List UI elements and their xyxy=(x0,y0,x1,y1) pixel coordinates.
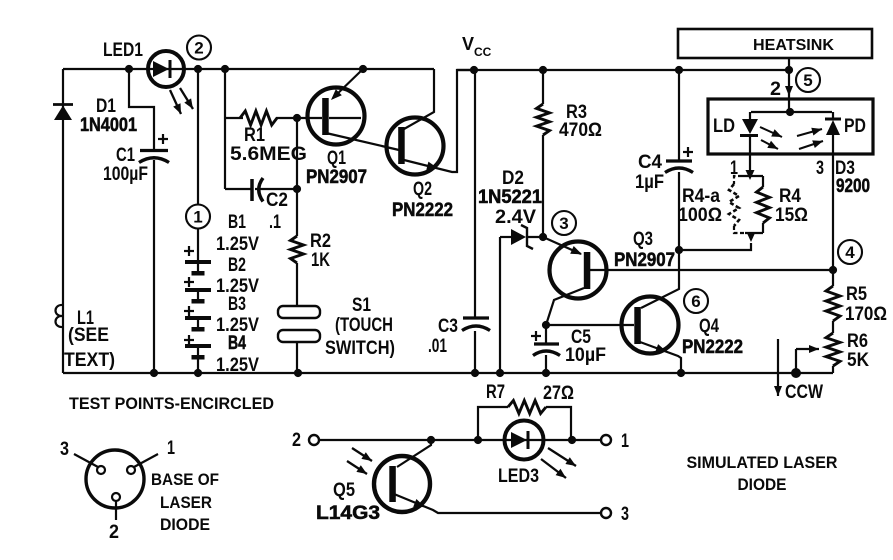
svg-text:1: 1 xyxy=(167,438,175,459)
svg-text:TEST POINTS-ENCIRCLED: TEST POINTS-ENCIRCLED xyxy=(69,394,274,413)
svg-text:SIMULATED LASER: SIMULATED LASER xyxy=(687,453,838,472)
svg-text:(SEE: (SEE xyxy=(68,325,109,346)
svg-text:170Ω: 170Ω xyxy=(845,304,887,325)
svg-text:10µF: 10µF xyxy=(565,345,606,366)
svg-text:Q5: Q5 xyxy=(333,480,355,501)
svg-text:3: 3 xyxy=(60,439,69,460)
svg-text:PN2907: PN2907 xyxy=(306,167,367,188)
svg-text:Q3: Q3 xyxy=(633,229,653,250)
svg-text:D2: D2 xyxy=(502,168,524,189)
svg-text:B3: B3 xyxy=(228,294,246,315)
svg-text:5K: 5K xyxy=(847,350,869,371)
svg-text:1: 1 xyxy=(193,208,202,227)
svg-text:C1: C1 xyxy=(116,145,135,166)
svg-text:PD: PD xyxy=(844,116,866,137)
svg-text:R4-a: R4-a xyxy=(682,186,720,207)
svg-text:B4: B4 xyxy=(228,333,246,354)
svg-text:1.25V: 1.25V xyxy=(216,355,259,376)
svg-text:SWITCH): SWITCH) xyxy=(325,338,395,359)
svg-text:1.25V: 1.25V xyxy=(216,234,259,255)
svg-text:TEXT): TEXT) xyxy=(64,350,115,371)
svg-text:100Ω: 100Ω xyxy=(678,205,722,226)
svg-text:PN2907: PN2907 xyxy=(614,250,675,271)
svg-text:4: 4 xyxy=(845,243,855,262)
svg-text:R2: R2 xyxy=(310,231,331,252)
svg-text:R1: R1 xyxy=(244,125,265,146)
svg-text:PN2222: PN2222 xyxy=(682,337,743,358)
svg-text:.01: .01 xyxy=(428,336,447,357)
svg-text:1N5221: 1N5221 xyxy=(478,187,542,208)
svg-text:.1: .1 xyxy=(269,212,281,233)
svg-text:2: 2 xyxy=(109,522,119,543)
svg-text:DIODE: DIODE xyxy=(160,515,210,534)
svg-text:C2: C2 xyxy=(266,190,288,211)
svg-text:LASER: LASER xyxy=(160,493,212,512)
svg-text:R5: R5 xyxy=(846,284,867,305)
svg-text:B2: B2 xyxy=(228,255,246,276)
svg-text:BASE OF: BASE OF xyxy=(151,470,219,489)
svg-text:C4: C4 xyxy=(638,152,662,173)
svg-text:R6: R6 xyxy=(847,331,868,352)
svg-text:HEATSINK: HEATSINK xyxy=(753,37,834,54)
svg-text:PN2222: PN2222 xyxy=(392,200,453,221)
svg-text:S1: S1 xyxy=(352,295,371,316)
svg-text:1µF: 1µF xyxy=(635,172,664,193)
svg-text:CCW: CCW xyxy=(785,382,823,403)
svg-text:6: 6 xyxy=(691,292,700,311)
svg-text:C3: C3 xyxy=(438,316,458,337)
svg-text:B1: B1 xyxy=(228,212,246,233)
svg-text:Q4: Q4 xyxy=(699,316,719,337)
svg-text:5: 5 xyxy=(803,71,812,90)
svg-text:1K: 1K xyxy=(311,250,330,271)
svg-text:(TOUCH: (TOUCH xyxy=(335,315,393,336)
svg-text:D1: D1 xyxy=(96,96,116,117)
svg-text:DIODE: DIODE xyxy=(738,475,787,494)
svg-text:L14G3: L14G3 xyxy=(316,503,380,524)
svg-text:LED1: LED1 xyxy=(103,40,143,61)
svg-text:27Ω: 27Ω xyxy=(543,383,574,404)
svg-text:100µF: 100µF xyxy=(103,164,148,185)
svg-text:5.6MEG: 5.6MEG xyxy=(230,144,307,165)
svg-text:2.4V: 2.4V xyxy=(495,207,536,228)
svg-text:15Ω: 15Ω xyxy=(775,205,808,226)
svg-text:9200: 9200 xyxy=(836,176,870,197)
svg-text:2: 2 xyxy=(194,39,203,58)
svg-text:2: 2 xyxy=(770,79,781,100)
svg-text:470Ω: 470Ω xyxy=(559,120,602,141)
svg-text:3: 3 xyxy=(816,158,824,179)
svg-text:3: 3 xyxy=(621,504,629,525)
svg-text:LED3: LED3 xyxy=(498,466,539,487)
svg-text:R4: R4 xyxy=(779,186,801,207)
svg-text:3: 3 xyxy=(559,214,568,233)
svg-text:1: 1 xyxy=(730,158,738,179)
svg-text:R7: R7 xyxy=(486,382,505,403)
svg-text:1: 1 xyxy=(621,431,629,452)
svg-text:2: 2 xyxy=(292,430,301,451)
svg-text:Q1: Q1 xyxy=(327,148,346,169)
svg-text:1N4001: 1N4001 xyxy=(80,115,137,136)
svg-text:LD: LD xyxy=(713,116,735,137)
svg-text:Q2: Q2 xyxy=(413,179,432,200)
